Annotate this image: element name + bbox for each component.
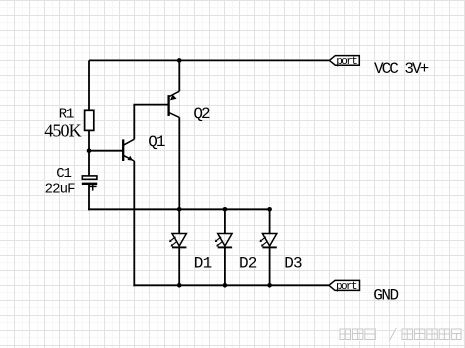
svg-text:port: port [336,56,357,68]
svg-text:VCC 3V+: VCC 3V+ [374,60,429,78]
svg-text:450K: 450K [44,120,81,140]
wire Q2 collector down [178,117,180,209]
LED D1 [169,209,186,285]
node Q1 base tee [87,148,92,153]
svg-text:Q1: Q1 [148,133,165,151]
port GND [329,280,360,293]
wire Q2 emitter to VCC rail [178,60,180,91]
transistor Q2 [169,91,180,117]
svg-text:port: port [336,281,357,293]
wire Q1 emitter down to bottom-rail corner [134,161,135,285]
LED D3 [260,209,277,285]
watermark [340,328,462,341]
transistor Q1 [123,139,134,161]
wire R1 to node [88,130,90,176]
wire top VCC rail [89,59,329,61]
svg-text:GND: GND [373,287,398,305]
wire left vertical upper [88,60,90,110]
port VCC [329,56,359,68]
node junction top rail / Q2 emitter [177,58,182,63]
svg-text:D2: D2 [239,255,257,273]
capacitor C1 [82,176,97,191]
wire bottom GND rail [133,284,329,286]
node anode rail D1 [177,207,182,212]
node bottom rail D3 [267,283,272,288]
wire anode rail [88,208,270,210]
node anode rail D2 [223,207,228,212]
node bottom rail D2 [223,283,228,288]
LED D2 [215,209,232,285]
wire C1 down to anode-rail corner [89,185,90,210]
svg-text:22uF: 22uF [45,181,76,197]
wire Q1 collector up and over to Q2 base [134,105,167,140]
svg-text:Q2: Q2 [193,105,210,123]
svg-text:D1: D1 [194,255,212,273]
node anode rail D3 [267,207,272,212]
node bottom rail D1 [177,283,182,288]
svg-text:C1: C1 [56,166,71,182]
svg-text:D3: D3 [284,255,302,273]
wire Q1 base [89,150,123,152]
resistor R1 [85,110,94,130]
